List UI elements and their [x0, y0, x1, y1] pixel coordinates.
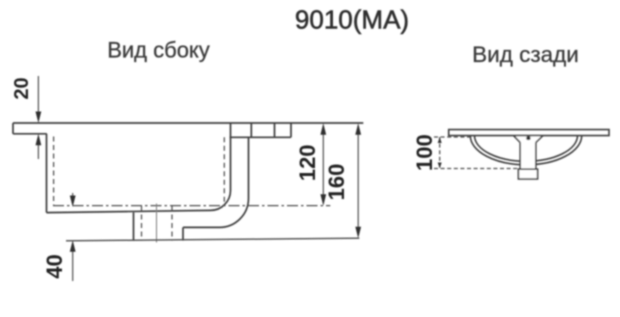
hidden drain pipe wall left — [141, 206, 143, 241]
rim left overhang bottom — [13, 133, 47, 135]
bowl outer silhouette arc — [470, 136, 581, 165]
dim 20 lower arrowhead — [36, 134, 42, 146]
dim 20 upper leader line — [37, 76, 39, 112]
svg-text:100: 100 — [412, 134, 437, 171]
drain funnel left slant — [514, 136, 521, 143]
dimension 40 — [70, 193, 76, 281]
svg-text:160: 160 — [324, 164, 349, 201]
svg-text:Вид сбоку: Вид сбоку — [107, 38, 210, 63]
dim 20 upper arrowhead — [36, 112, 42, 124]
faucet deck tick 1 — [250, 123, 252, 137]
drain stub left edge — [133, 212, 135, 240]
basin bottom + inner elbow curve up — [47, 123, 231, 213]
svg-text:Вид сзади: Вид сзади — [472, 42, 579, 67]
dim 160 bottom arrowhead — [355, 227, 361, 239]
dim 120 top arrowhead — [320, 123, 326, 135]
hidden drain pipe wall right — [171, 206, 173, 241]
drain axis line — [156, 204, 158, 243]
drain body right wall — [535, 142, 537, 169]
faucet deck tick 2 — [274, 123, 276, 137]
hidden overflow channel wall — [223, 137, 225, 205]
rim right end edge — [290, 123, 292, 137]
dim 40 lower arrowhead — [70, 240, 76, 252]
drain funnel right slant — [536, 136, 543, 143]
dim 120 line — [322, 134, 324, 195]
rim right block underside — [230, 136, 292, 138]
hidden (dashed) edges of side view — [54, 137, 225, 241]
dimension 160 — [355, 123, 361, 238]
dimension 20 — [36, 76, 42, 159]
dim 20 lower leader line — [37, 145, 39, 159]
drain foot top line — [518, 168, 537, 170]
basin inner bottom dash-dot line + 120 extension — [53, 205, 330, 207]
rim left end edge — [12, 123, 14, 134]
drain stub right step — [182, 227, 184, 240]
svg-text:40: 40 — [42, 254, 67, 278]
hidden basin inner wall left — [53, 137, 55, 206]
drain foot — [518, 169, 537, 179]
outer elbow curve — [183, 137, 249, 227]
dim 40 lower leader line — [72, 252, 74, 282]
SIDE VIEW OBJECT — [13, 123, 363, 241]
drain white mask — [514, 136, 544, 179]
dim 120 bottom arrowhead — [320, 194, 326, 206]
bowl inner silhouette arc — [475, 136, 578, 162]
svg-text:20: 20 — [11, 77, 33, 99]
dim 40 upper arrowhead — [70, 196, 76, 208]
dim 40 upper leader line — [72, 193, 74, 199]
rim top edge + right extension line — [13, 122, 363, 124]
back rim slab — [449, 130, 609, 136]
basin left outer wall — [46, 134, 48, 213]
svg-text:120: 120 — [295, 144, 320, 181]
dim 160 top arrowhead — [355, 123, 361, 135]
dimension 120 — [320, 123, 326, 206]
stub bottom + 40/160 extension line — [66, 238, 359, 241]
dimension 100 — [434, 137, 519, 169]
BACK VIEW OBJECT — [470, 136, 581, 165]
dim 160 line — [357, 134, 359, 228]
svg-text:9010(MA): 9010(MA) — [295, 5, 409, 35]
overflow hole — [526, 136, 530, 140]
drain body left wall — [519, 142, 521, 169]
